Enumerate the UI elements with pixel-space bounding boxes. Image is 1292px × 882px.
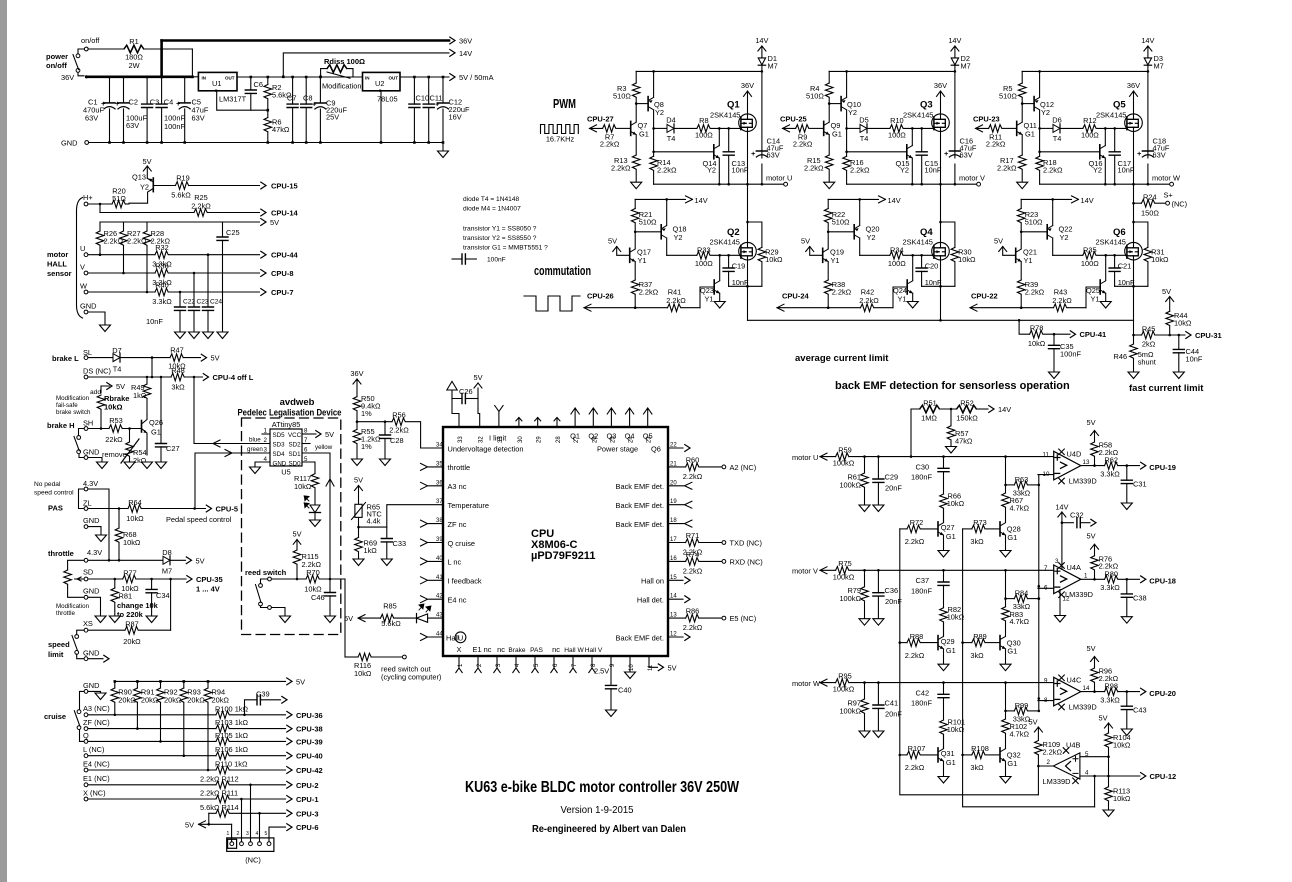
svg-text:E4 (NC): E4 (NC) <box>83 759 110 768</box>
svg-text:10kΩ: 10kΩ <box>958 255 976 264</box>
svg-text:Hall on: Hall on <box>641 577 664 586</box>
svg-text:5V: 5V <box>292 530 301 539</box>
svg-text:28: 28 <box>556 436 562 443</box>
svg-text:CPU-26: CPU-26 <box>587 292 614 301</box>
svg-text:10kΩ: 10kΩ <box>1113 794 1131 803</box>
resistor R21 <box>634 199 636 208</box>
pin 31 fork <box>495 406 503 428</box>
bias divider R51 R52 R57 row U only <box>911 409 920 457</box>
svg-text:W: W <box>80 282 87 291</box>
capacitor C5 <box>184 77 186 143</box>
phase U labels <box>587 36 792 305</box>
bottom pin numbers <box>458 663 654 671</box>
svg-text:D4: D4 <box>666 116 675 125</box>
svg-text:CPU-31: CPU-31 <box>1195 331 1222 340</box>
transistor Q17 <box>617 247 630 256</box>
svg-text:C7: C7 <box>287 94 296 103</box>
resistor R81 change 10k to 220k <box>114 579 116 588</box>
svg-text:14V: 14V <box>695 196 708 205</box>
svg-text:R107: R107 <box>908 744 926 753</box>
svg-text:SD1: SD1 <box>289 451 302 458</box>
LED D10 <box>417 614 428 622</box>
pin14 arrow <box>668 598 683 600</box>
svg-text:C2: C2 <box>129 98 138 107</box>
svg-text:100kΩ: 100kΩ <box>833 685 855 694</box>
svg-text:R78: R78 <box>1030 324 1044 333</box>
svg-text:R24: R24 <box>1143 193 1157 202</box>
net 5V hall rail <box>100 221 260 223</box>
transistor Q27 <box>938 522 944 536</box>
svg-text:DS (NC): DS (NC) <box>83 367 111 376</box>
svg-text:Y2: Y2 <box>674 233 683 242</box>
svg-text:Q2: Q2 <box>727 227 740 238</box>
svg-text:CPU-42: CPU-42 <box>296 766 323 775</box>
ground reed <box>280 616 291 623</box>
svg-text:C3: C3 <box>150 98 159 107</box>
ground C31 <box>1121 503 1132 510</box>
svg-text:7: 7 <box>304 437 308 444</box>
svg-text:L nc: L nc <box>448 558 462 567</box>
resistor R33 gate low <box>667 254 697 256</box>
capacitor C9 <box>319 77 321 143</box>
svg-text:CPU-6: CPU-6 <box>296 823 319 832</box>
svg-text:2.2kΩ: 2.2kΩ <box>1052 296 1072 305</box>
resistor R41 <box>668 304 681 312</box>
svg-text:44: 44 <box>436 632 443 638</box>
svg-text:R35: R35 <box>1083 245 1097 254</box>
shield symbol <box>447 381 457 390</box>
switch modification (open) in 14V line <box>327 72 350 78</box>
svg-text:1: 1 <box>264 428 268 435</box>
right pin numbers <box>670 443 677 638</box>
capacitor C46 <box>329 579 331 616</box>
wire CPU-6 <box>269 827 286 843</box>
svg-text:R95: R95 <box>838 672 852 681</box>
resistor R68 <box>118 509 120 529</box>
svg-text:4.3V: 4.3V <box>83 479 98 488</box>
throttle potentiometer <box>68 560 85 570</box>
resistor R60 to A2 <box>668 466 686 468</box>
svg-text:motor V: motor V <box>959 174 985 183</box>
net 5V output rail <box>400 76 449 78</box>
svg-text:20kΩ: 20kΩ <box>187 696 205 705</box>
svg-text:Q29: Q29 <box>941 637 955 646</box>
svg-text:Modification: Modification <box>56 395 90 402</box>
capacitor C30 <box>943 457 945 494</box>
svg-text:add: add <box>90 389 101 396</box>
svg-text:No pedal: No pedal <box>34 481 61 488</box>
svg-text:R72: R72 <box>910 518 924 527</box>
svg-text:Q31: Q31 <box>941 749 955 758</box>
resistor R87 <box>88 629 125 631</box>
ground throttle <box>95 616 106 623</box>
svg-text:R63: R63 <box>1015 475 1029 484</box>
svg-text:33: 33 <box>458 436 464 443</box>
svg-text:Rdiss 100Ω: Rdiss 100Ω <box>324 57 365 66</box>
pin 33/32 C26 circuit <box>452 398 480 427</box>
svg-text:180nF: 180nF <box>911 699 932 708</box>
resistor R94 <box>207 681 209 688</box>
transistor Q18 <box>635 231 661 233</box>
transistor Q23 <box>700 287 714 308</box>
svg-text:51Ω: 51Ω <box>112 194 126 203</box>
svg-text:U: U <box>458 633 463 642</box>
svg-text:C38: C38 <box>1133 593 1147 602</box>
svg-text:1%: 1% <box>361 442 372 451</box>
svg-text:Y2: Y2 <box>1041 108 1050 117</box>
svg-text:2.2kΩ: 2.2kΩ <box>859 296 879 305</box>
svg-text:2.2kΩ: 2.2kΩ <box>793 140 813 149</box>
resistor R29 <box>748 222 762 247</box>
svg-text:G1: G1 <box>832 130 842 139</box>
pin19 arrow in <box>668 501 692 508</box>
svg-text:U4D: U4D <box>1067 449 1082 458</box>
capacitor C4 <box>161 77 163 143</box>
svg-text:2.2kΩ: 2.2kΩ <box>611 164 631 173</box>
svg-text:1%: 1% <box>361 409 372 418</box>
svg-text:CPU-38: CPU-38 <box>296 725 323 734</box>
svg-text:C41: C41 <box>885 699 899 708</box>
svg-text:Hall W: Hall W <box>564 647 584 654</box>
svg-text:Modification: Modification <box>56 603 90 610</box>
svg-text:CPU-19: CPU-19 <box>1149 463 1176 472</box>
svg-text:25V: 25V <box>326 113 339 122</box>
svg-text:4.4k: 4.4k <box>367 517 381 526</box>
svg-text:5V: 5V <box>325 430 334 439</box>
resistor R45 to CPU-31 <box>1132 334 1135 337</box>
svg-text:Hall V: Hall V <box>585 647 603 654</box>
diode D1 <box>758 58 765 65</box>
resistor R71 to TXD <box>668 542 686 544</box>
svg-text:C31: C31 <box>1133 480 1147 489</box>
svg-text:throttle: throttle <box>448 463 471 472</box>
svg-text:GND: GND <box>61 139 77 148</box>
svg-text:CPU-3: CPU-3 <box>296 809 319 818</box>
svg-text:10kΩ: 10kΩ <box>947 499 965 508</box>
svg-text:throttle: throttle <box>48 549 74 558</box>
svg-text:VCC: VCC <box>288 432 302 439</box>
svg-text:4.7kΩ: 4.7kΩ <box>1010 730 1030 739</box>
svg-text:C22: C22 <box>183 299 195 306</box>
resistor R48 to CPU-4 <box>88 376 171 378</box>
svg-text:D6: D6 <box>1052 116 1061 125</box>
svg-text:14V: 14V <box>1055 502 1068 511</box>
wire U1 adj <box>217 91 268 110</box>
svg-text:14: 14 <box>1083 685 1090 692</box>
ground C25 <box>217 332 228 339</box>
capacitor C33 <box>386 527 388 559</box>
svg-text:2.2kΩ: 2.2kΩ <box>600 140 620 149</box>
svg-text:reed switch: reed switch <box>245 568 287 577</box>
svg-text:4.3V: 4.3V <box>87 548 102 557</box>
svg-text:C32: C32 <box>1070 511 1084 520</box>
svg-text:R89: R89 <box>973 632 987 641</box>
svg-text:10nF: 10nF <box>146 317 163 326</box>
svg-text:8: 8 <box>304 428 308 435</box>
svg-text:14V: 14V <box>459 49 472 58</box>
svg-text:E5 (NC): E5 (NC) <box>730 614 757 623</box>
svg-text:35: 35 <box>436 461 443 467</box>
ground R69 <box>353 559 364 566</box>
svg-text:1kΩ: 1kΩ <box>364 546 378 555</box>
svg-text:5V: 5V <box>1162 287 1171 296</box>
row V labels <box>792 532 1176 660</box>
svg-text:A3 nc: A3 nc <box>448 482 467 491</box>
svg-text:Y1: Y1 <box>898 295 907 304</box>
svg-text:2.2kΩ: 2.2kΩ <box>683 623 703 632</box>
svg-text:motor W: motor W <box>792 679 820 688</box>
svg-text:R75: R75 <box>838 559 852 568</box>
svg-text:2: 2 <box>237 831 240 837</box>
left pin stubs 2,3 <box>262 444 270 454</box>
svg-text:2.2kΩ: 2.2kΩ <box>986 140 1006 149</box>
svg-text:CPU-27: CPU-27 <box>587 115 614 124</box>
svg-text:C21: C21 <box>1118 261 1132 270</box>
svg-text:Power stage: Power stage <box>597 444 638 453</box>
svg-text:R106 1kΩ: R106 1kΩ <box>215 745 249 754</box>
svg-text:RXD (NC): RXD (NC) <box>730 557 763 566</box>
diode D7 <box>88 357 113 359</box>
capacitor C6 <box>250 77 252 110</box>
svg-text:CPU-23: CPU-23 <box>973 115 1000 124</box>
connector (NC) <box>227 838 274 852</box>
phase W labels <box>971 36 1180 305</box>
svg-text:PAS: PAS <box>48 504 63 513</box>
resistor R58 pullup <box>1091 431 1099 443</box>
svg-text:R10: R10 <box>890 116 904 125</box>
svg-text:2.2kΩ: 2.2kΩ <box>832 288 852 297</box>
svg-text:Modification: Modification <box>322 82 361 91</box>
svg-text:µPD79F9211: µPD79F9211 <box>531 550 595 562</box>
svg-text:Y1: Y1 <box>831 256 840 265</box>
svg-text:41: 41 <box>436 575 443 581</box>
svg-text:Y1: Y1 <box>638 256 647 265</box>
capacitor C34 <box>151 579 153 616</box>
svg-text:C43: C43 <box>1133 706 1147 715</box>
svg-text:Q cruise: Q cruise <box>448 539 476 548</box>
svg-text:10kΩ: 10kΩ <box>765 255 783 264</box>
ground C40 <box>606 710 617 717</box>
bottom pins 1-8 stubs <box>456 656 595 673</box>
wire R114 to 5V left <box>199 813 232 824</box>
svg-text:510Ω: 510Ω <box>999 92 1017 101</box>
svg-text:5V: 5V <box>1086 532 1095 541</box>
svg-text:R60: R60 <box>686 455 700 464</box>
svg-text:63V: 63V <box>126 121 139 130</box>
capacitor C22 <box>179 292 181 332</box>
resistor Rdiss 100 modification bypass <box>321 69 353 77</box>
wire motor sense in <box>820 453 836 460</box>
row W labels <box>792 644 1176 772</box>
svg-text:SD: SD <box>83 568 93 577</box>
svg-text:10kΩ: 10kΩ <box>1151 255 1169 264</box>
resistor Rbrake modification <box>100 427 103 430</box>
ground C22 <box>175 332 186 339</box>
svg-text:R86: R86 <box>686 607 700 616</box>
svg-text:10kΩ: 10kΩ <box>1174 319 1192 328</box>
svg-text:+: + <box>115 99 120 108</box>
svg-text:CPU-5: CPU-5 <box>216 505 239 514</box>
svg-text:ZF nc: ZF nc <box>448 520 467 529</box>
svg-text:10nF: 10nF <box>1186 355 1203 364</box>
svg-text:20kΩ: 20kΩ <box>123 637 141 646</box>
resistor R44 <box>1166 311 1174 325</box>
net 14V low side <box>635 196 692 203</box>
resistor R74 to RXD <box>668 560 686 562</box>
svg-text:7: 7 <box>1044 565 1048 572</box>
top pin numbers <box>458 436 653 443</box>
svg-text:R87: R87 <box>125 620 139 629</box>
svg-text:C19: C19 <box>732 261 746 270</box>
svg-text:20nF: 20nF <box>885 597 902 606</box>
wire U5 gnd <box>255 462 270 467</box>
capacitor C44 <box>1178 335 1180 372</box>
svg-text:motor U: motor U <box>792 453 818 462</box>
svg-text:2SK4145: 2SK4145 <box>710 111 740 120</box>
svg-text:motor W: motor W <box>1152 174 1180 183</box>
wire U4B - input to CPU-12 <box>1080 775 1140 777</box>
svg-text:power: power <box>46 52 68 61</box>
svg-text:Back EMF det.: Back EMF det. <box>616 482 664 491</box>
svg-text:3kΩ: 3kΩ <box>970 763 984 772</box>
svg-text:LM339D: LM339D <box>1069 702 1097 711</box>
svg-text:2.2kΩ: 2.2kΩ <box>683 566 703 575</box>
svg-text:3: 3 <box>264 447 268 454</box>
connector pin stubs <box>232 785 260 842</box>
svg-text:CPU-40: CPU-40 <box>296 752 323 761</box>
svg-text:1: 1 <box>1084 573 1088 580</box>
svg-text:fast current limit: fast current limit <box>1129 383 1204 394</box>
resistor R93 <box>183 681 185 688</box>
svg-text:nc: nc <box>552 645 560 654</box>
resistor R90 <box>114 681 116 688</box>
svg-text:5V: 5V <box>354 476 363 485</box>
resistor R61 <box>864 457 866 473</box>
svg-text:R48: R48 <box>171 366 185 375</box>
pin22 arrow Q6 <box>668 447 683 449</box>
svg-text:63V: 63V <box>1153 151 1166 160</box>
svg-text:13: 13 <box>1083 459 1090 466</box>
svg-text:3kΩ: 3kΩ <box>171 383 185 392</box>
PWM square wave <box>541 125 579 134</box>
svg-text:6: 6 <box>304 447 308 454</box>
svg-text:R19: R19 <box>176 174 190 183</box>
svg-text:+: + <box>1137 149 1142 158</box>
svg-text:R64: R64 <box>128 498 142 507</box>
svg-text:C28: C28 <box>390 436 404 445</box>
svg-text:SL: SL <box>83 348 92 357</box>
ground hall <box>100 325 111 332</box>
svg-text:C29: C29 <box>885 473 899 482</box>
ground PAS <box>96 535 107 542</box>
ground R113 <box>1103 810 1114 817</box>
capacitor C24 <box>207 255 209 332</box>
hall connector bracket <box>77 198 83 319</box>
resistor R49 <box>146 377 148 384</box>
svg-text:R40: R40 <box>155 280 169 289</box>
svg-text:U2: U2 <box>375 79 384 88</box>
svg-text:Undervoltage detection: Undervoltage detection <box>448 444 524 453</box>
svg-text:SD2: SD2 <box>289 442 302 449</box>
svg-text:R73: R73 <box>973 518 987 527</box>
wire Q1 source <box>747 131 749 184</box>
cross bus X2 <box>963 529 1095 807</box>
svg-text:510Ω: 510Ω <box>832 218 850 227</box>
svg-text:2kΩ: 2kΩ <box>1142 340 1156 349</box>
svg-text:R51: R51 <box>923 399 937 408</box>
wire SD0 to R117 <box>302 462 315 474</box>
svg-text:(cycling computer): (cycling computer) <box>381 673 441 682</box>
svg-text:D7: D7 <box>112 346 121 355</box>
svg-text:63V: 63V <box>767 151 780 160</box>
svg-text:11: 11 <box>1043 451 1050 458</box>
left pin arrows <box>421 463 444 640</box>
ground LED <box>310 520 321 527</box>
svg-text:CPU-1: CPU-1 <box>296 795 319 804</box>
svg-text:100kΩ: 100kΩ <box>833 459 855 468</box>
svg-text:22kΩ: 22kΩ <box>105 435 123 444</box>
svg-text:CPU-18: CPU-18 <box>1149 577 1176 586</box>
svg-text:on/off: on/off <box>46 61 67 70</box>
pins 30 29 28 stubs <box>516 418 560 428</box>
svg-text:R56: R56 <box>392 411 406 420</box>
svg-text:63V: 63V <box>960 151 973 160</box>
svg-text:10kΩ: 10kΩ <box>123 538 141 547</box>
svg-text:5V: 5V <box>1098 714 1107 723</box>
ground R13 <box>631 182 642 189</box>
resistor R3 <box>635 71 637 83</box>
svg-text:transistor Y1 = SS8050 ?: transistor Y1 = SS8050 ? <box>463 226 537 233</box>
svg-text:63V: 63V <box>192 114 205 123</box>
svg-text:29: 29 <box>537 436 543 443</box>
resistor R46 shunt <box>1130 344 1138 358</box>
wire output <box>1081 465 1105 467</box>
svg-text:R47: R47 <box>170 346 184 355</box>
back EMF row U graphics (reused for V and W) <box>820 431 1146 558</box>
svg-text:10nF: 10nF <box>1118 166 1135 175</box>
cross bus inverting <box>1038 475 1040 711</box>
net motor phase rail <box>654 183 784 185</box>
resistor R20 <box>88 203 112 205</box>
svg-text:2.2kΩ: 2.2kΩ <box>905 537 925 546</box>
svg-text:5V: 5V <box>296 677 305 686</box>
svg-text:G1: G1 <box>1007 647 1017 656</box>
resistor R86 to E5 <box>668 617 686 619</box>
svg-text:2.2kΩ: 2.2kΩ <box>1043 748 1063 757</box>
svg-text:C4: C4 <box>164 98 173 107</box>
resistor R69 <box>355 537 363 551</box>
svg-text:14V: 14V <box>888 196 901 205</box>
PAS connector bracket <box>79 489 85 509</box>
resistor R37 <box>631 280 639 294</box>
svg-text:R62: R62 <box>1104 456 1118 465</box>
svg-text:36: 36 <box>436 480 443 486</box>
svg-text:C39: C39 <box>256 689 270 698</box>
net shunt rail <box>748 319 1134 321</box>
capacitor C25 <box>222 222 224 332</box>
svg-text:3kΩ: 3kΩ <box>970 651 984 660</box>
svg-text:C42: C42 <box>916 688 930 697</box>
svg-text:2W: 2W <box>128 61 139 70</box>
back EMF row W graphics <box>820 657 1146 784</box>
svg-text:C24: C24 <box>210 299 222 306</box>
svg-text:100Ω: 100Ω <box>1081 130 1099 139</box>
net 36V top rail <box>162 39 449 42</box>
svg-text:C27: C27 <box>166 444 180 453</box>
svg-text:R45: R45 <box>1142 325 1156 334</box>
svg-text:5V: 5V <box>994 237 1003 246</box>
svg-text:100nF: 100nF <box>1060 350 1081 359</box>
